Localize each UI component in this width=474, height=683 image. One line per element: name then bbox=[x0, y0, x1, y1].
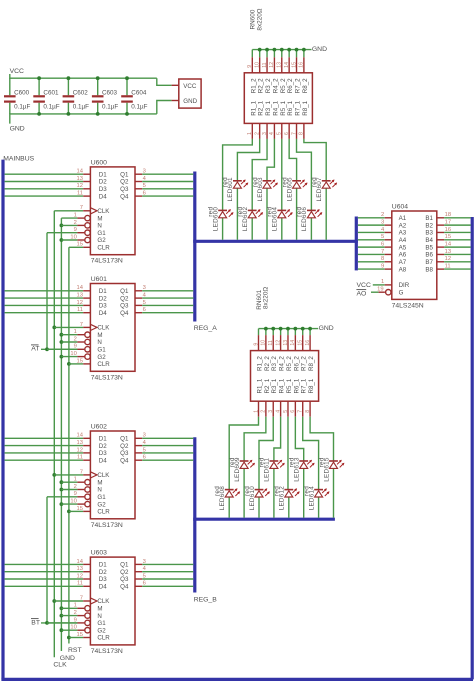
pin label U602 Q3 bbox=[120, 450, 129, 457]
pin number U600 CLR bbox=[77, 242, 83, 248]
svg-text:VCC: VCC bbox=[10, 68, 24, 75]
svg-text:4: 4 bbox=[269, 132, 275, 135]
pin U604 B6 bbox=[437, 253, 444, 255]
capacitor C603 bbox=[92, 78, 104, 114]
svg-text:7: 7 bbox=[80, 322, 83, 328]
inversion bubble U601 G2 bbox=[85, 354, 90, 359]
svg-text:R5_1: R5_1 bbox=[280, 100, 287, 115]
svg-text:LED608: LED608 bbox=[219, 486, 226, 511]
pin U604 A3 bbox=[385, 231, 392, 233]
pin label U603 D3 bbox=[99, 576, 107, 583]
svg-text:REG_A: REG_A bbox=[194, 325, 218, 332]
svg-text:R3_1: R3_1 bbox=[265, 100, 272, 115]
svg-text:R4_1: R4_1 bbox=[272, 100, 279, 115]
svg-text:RN600: RN600 bbox=[249, 9, 256, 29]
pin U600 D2 bbox=[83, 181, 90, 183]
svg-text:GND: GND bbox=[60, 655, 75, 662]
svg-text:5: 5 bbox=[283, 410, 289, 413]
pin label U603 Q4 bbox=[120, 584, 129, 591]
svg-text:5: 5 bbox=[143, 183, 146, 189]
pin number U604 B5 bbox=[445, 242, 452, 248]
svg-text:9: 9 bbox=[74, 227, 77, 233]
svg-text:10: 10 bbox=[70, 351, 76, 357]
pin U601 D2 bbox=[83, 297, 90, 299]
junction C603 VCC bbox=[96, 76, 100, 80]
label RN600 R1_1 bbox=[250, 100, 257, 115]
pin label U602 CLK bbox=[97, 472, 110, 479]
LED LED611 lead to bus bbox=[273, 468, 275, 517]
net GND label RN600 bbox=[312, 46, 327, 53]
label LED607 name bbox=[316, 177, 323, 202]
junction RN601 GND rail bbox=[301, 327, 305, 331]
junction RN601 GND rail bbox=[308, 327, 312, 331]
junction RN601 GND rail bbox=[264, 327, 268, 331]
svg-text:13: 13 bbox=[77, 176, 83, 182]
svg-text:8: 8 bbox=[305, 410, 311, 413]
svg-text:6: 6 bbox=[143, 307, 146, 313]
wire U603 N bbox=[61, 615, 77, 617]
wire U602 D1 from MAINBUS bbox=[5, 437, 84, 439]
pin number U604 B7 bbox=[445, 256, 451, 262]
pin number U600 Q1 bbox=[143, 169, 146, 175]
svg-text:11: 11 bbox=[268, 340, 274, 345]
pin number U600 Q3 bbox=[143, 183, 146, 189]
label U601 name bbox=[91, 276, 107, 283]
wire U603 D4 from MAINBUS bbox=[5, 585, 84, 587]
wire U604 B5 to MAINBUS bbox=[444, 246, 471, 248]
svg-text:LED615: LED615 bbox=[323, 457, 330, 482]
svg-text:5: 5 bbox=[381, 234, 384, 240]
pin label U600 Q4 bbox=[120, 193, 129, 200]
svg-text:D1: D1 bbox=[99, 436, 107, 443]
pin RN601 6 bbox=[294, 401, 296, 417]
pin U604 G bbox=[379, 291, 385, 293]
pin number U601 Q1 bbox=[143, 285, 146, 291]
pin label U603 D1 bbox=[99, 562, 107, 569]
wire U604 B2 to MAINBUS bbox=[444, 224, 471, 226]
bus MAINBUS left vertical bbox=[1, 160, 4, 680]
junction RN601 GND rail bbox=[279, 327, 283, 331]
IC U600 74LS173N box bbox=[90, 167, 135, 255]
pin number U600 Q2 bbox=[143, 176, 147, 182]
wire U602 N bbox=[61, 489, 77, 491]
svg-text:Q1: Q1 bbox=[120, 288, 129, 295]
pin label U602 N bbox=[97, 487, 101, 494]
wire RN600 pin16 to GND bbox=[303, 50, 305, 58]
svg-text:Q2: Q2 bbox=[120, 295, 129, 302]
wire U603 D1 from MAINBUS bbox=[5, 563, 84, 565]
inversion bubble U600 N bbox=[85, 223, 90, 228]
pin U602 M bbox=[77, 481, 84, 483]
wire RN601 pin4 to LED611 bbox=[274, 417, 281, 461]
junction GND net bbox=[60, 488, 64, 492]
pin number U603 Q4 bbox=[143, 581, 146, 587]
svg-text:R8_1: R8_1 bbox=[308, 378, 315, 393]
inversion bubble U600 M bbox=[85, 215, 90, 220]
LED LED614 diode symbol bbox=[314, 488, 329, 497]
wire U603 Q3 to REG bus bbox=[142, 578, 193, 580]
pin number U601 Q2 bbox=[143, 293, 147, 299]
wire U601 M bbox=[61, 334, 77, 336]
pin number U602 D1 bbox=[77, 433, 84, 439]
junction RN600 GND rail bbox=[280, 48, 284, 52]
svg-text:Q4: Q4 bbox=[120, 193, 129, 200]
svg-text:9: 9 bbox=[253, 343, 259, 346]
svg-text:R5_1: R5_1 bbox=[286, 378, 293, 393]
wire U601 D1 from MAINBUS bbox=[5, 290, 84, 292]
svg-text:CLK: CLK bbox=[97, 472, 110, 479]
pin number RN601 4 bbox=[275, 410, 281, 413]
pin number RN601 12 bbox=[275, 340, 281, 346]
svg-text:16: 16 bbox=[445, 227, 451, 233]
pin U604 A6 bbox=[385, 253, 392, 255]
wire RN601 pin13 to GND bbox=[287, 329, 289, 336]
label RN601 R3_1 bbox=[271, 378, 278, 393]
label LED600 name bbox=[212, 207, 219, 232]
svg-text:D1: D1 bbox=[99, 288, 107, 295]
svg-text:G1: G1 bbox=[97, 494, 106, 501]
pin U604 B8 bbox=[437, 268, 444, 270]
wire RN601 pin16 to GND bbox=[309, 329, 311, 336]
pin label U603 Q3 bbox=[120, 576, 129, 583]
pin number U603 CLR bbox=[77, 632, 83, 638]
wire U601 Q1 to REG bus bbox=[142, 290, 193, 292]
svg-text:GND: GND bbox=[319, 325, 334, 332]
inversion bubble U602 G2 bbox=[85, 501, 90, 506]
wire U601 G2 bbox=[61, 356, 77, 358]
svg-text:CLK: CLK bbox=[97, 208, 110, 215]
wire U601 Q3 to REG bus bbox=[142, 304, 193, 306]
svg-text:5: 5 bbox=[143, 300, 146, 306]
wire RN601 pin5 to LED612 bbox=[287, 417, 289, 490]
pin U604 B1 bbox=[437, 217, 444, 219]
pin label U603 G1 bbox=[97, 620, 106, 627]
label LED614 name bbox=[308, 486, 315, 511]
wire U600 Q3 to REG bus bbox=[142, 188, 193, 190]
inversion bubble U600 G2 bbox=[85, 237, 90, 242]
LED LED612 diode symbol bbox=[284, 488, 299, 497]
wire U600 G2 bbox=[61, 239, 77, 241]
label RN600 R1_2 bbox=[250, 78, 257, 93]
wire RN601 pin15 to GND bbox=[302, 329, 304, 336]
capacitor C602 bbox=[63, 78, 75, 114]
LED LED608 lead to bus bbox=[228, 497, 230, 518]
net VCC label bbox=[10, 68, 24, 75]
pin number U604 B8 bbox=[445, 264, 451, 270]
svg-text:Q2: Q2 bbox=[120, 179, 129, 186]
LED LED611 diode symbol bbox=[270, 460, 285, 469]
svg-text:M: M bbox=[97, 215, 102, 222]
LED LED601 lead to bus bbox=[236, 188, 238, 240]
pin supply GND bbox=[172, 100, 179, 102]
pin U601 G2 bbox=[77, 356, 84, 358]
pin label U600 D1 bbox=[99, 171, 107, 178]
svg-text:9: 9 bbox=[74, 344, 77, 350]
LED LED610 diode symbol bbox=[255, 488, 270, 497]
svg-text:11: 11 bbox=[77, 455, 83, 461]
resistor network RN600 box bbox=[244, 73, 312, 124]
svg-text:R3_2: R3_2 bbox=[271, 356, 278, 371]
junction GND net bbox=[60, 333, 64, 337]
wire U602 D2 from MAINBUS bbox=[5, 445, 84, 447]
pin label U604 A8 bbox=[399, 266, 407, 273]
pin number U600 D1 bbox=[77, 169, 84, 175]
svg-text:10: 10 bbox=[70, 234, 76, 240]
svg-text:R7_1: R7_1 bbox=[295, 100, 302, 115]
wire U601 D4 from MAINBUS bbox=[5, 312, 84, 314]
svg-text:3: 3 bbox=[143, 559, 146, 565]
pin RN600 12 bbox=[273, 57, 275, 73]
pin RN600 5 bbox=[281, 123, 283, 138]
pin label U601 Q1 bbox=[120, 288, 129, 295]
junction GND net bbox=[60, 502, 64, 506]
pin label U601 Q3 bbox=[120, 303, 129, 310]
wire net BT horizontal bbox=[41, 622, 77, 624]
pin number U604 A7 bbox=[381, 256, 384, 262]
wire RN601 pin8 to LED615 bbox=[310, 417, 333, 461]
wire U604 A2 from bus bbox=[358, 224, 385, 226]
pin number RN601 7 bbox=[298, 410, 304, 413]
pin number U604 A1 bbox=[381, 212, 384, 218]
pin number U602 Q2 bbox=[143, 440, 147, 446]
svg-text:C601: C601 bbox=[43, 89, 59, 96]
wire U603 Q2 to REG bus bbox=[142, 571, 193, 573]
svg-text:Q3: Q3 bbox=[120, 186, 129, 193]
label RN601 R3_2 bbox=[271, 356, 278, 371]
wire U603 Q4 to REG bus bbox=[142, 585, 193, 587]
pin U600 Q2 bbox=[135, 181, 142, 183]
pin number U603 G2 bbox=[70, 625, 76, 631]
pin U604 A4 bbox=[385, 239, 392, 241]
svg-text:CLK: CLK bbox=[97, 325, 110, 332]
pin U603 G1 bbox=[77, 622, 84, 624]
junction C604 VCC bbox=[125, 76, 129, 80]
LED LED606 lead to bus bbox=[310, 218, 312, 240]
wire U602 D4 from MAINBUS bbox=[5, 459, 84, 461]
svg-text:6: 6 bbox=[143, 581, 146, 587]
svg-text:14: 14 bbox=[77, 433, 84, 439]
svg-text:CLR: CLR bbox=[97, 245, 110, 252]
svg-text:16: 16 bbox=[305, 340, 311, 346]
svg-text:LED612: LED612 bbox=[279, 486, 286, 511]
svg-text:13: 13 bbox=[283, 340, 289, 346]
wire net CLK vertical bbox=[53, 211, 55, 658]
svg-text:B5: B5 bbox=[425, 244, 433, 251]
pin U603 D4 bbox=[83, 585, 90, 587]
pin number U603 D3 bbox=[77, 573, 83, 579]
wire U602 G1 bbox=[47, 496, 77, 498]
label LED603 name bbox=[257, 177, 264, 202]
junction RST net bbox=[67, 636, 71, 640]
label RN600 R3_2 bbox=[265, 78, 272, 93]
svg-text:10: 10 bbox=[70, 625, 76, 631]
svg-text:Q2: Q2 bbox=[120, 443, 129, 450]
pin number U603 Q3 bbox=[143, 573, 146, 579]
pin U602 N bbox=[77, 489, 84, 491]
inversion bubble U602 G1 bbox=[85, 494, 90, 499]
pin number U603 G1 bbox=[74, 617, 77, 623]
wire net AT horizontal bbox=[41, 348, 77, 350]
LED LED610 lead to bus bbox=[258, 497, 260, 518]
resistor network RN601 box bbox=[251, 351, 319, 402]
pin number RN600 14 bbox=[284, 62, 290, 68]
pin number RN600 9 bbox=[247, 65, 253, 68]
pin number U603 N bbox=[74, 610, 77, 616]
pin label U603 M bbox=[97, 606, 102, 613]
svg-text:15: 15 bbox=[291, 62, 297, 68]
wire GND rail bbox=[10, 114, 157, 124]
svg-text:LED613: LED613 bbox=[294, 457, 301, 482]
svg-text:6: 6 bbox=[143, 455, 146, 461]
junction RST net bbox=[67, 362, 71, 366]
svg-text:MAINBUS: MAINBUS bbox=[3, 155, 34, 162]
svg-text:3: 3 bbox=[143, 285, 146, 291]
pin label U600 D2 bbox=[99, 179, 107, 186]
label RN600 value bbox=[257, 8, 264, 30]
pin number RN600 4 bbox=[269, 132, 275, 135]
label RN601 R2_2 bbox=[264, 356, 271, 371]
pin label U600 M bbox=[97, 215, 102, 222]
net GND label RN601 bbox=[319, 325, 334, 332]
svg-text:1: 1 bbox=[381, 279, 384, 285]
wire U602 Q1 to REG bus bbox=[142, 437, 193, 439]
pin label U603 Q1 bbox=[120, 562, 129, 569]
capacitor C601 bbox=[33, 78, 45, 114]
wire RN600 pin6 to LED605 bbox=[289, 139, 296, 181]
pin RN600 1 bbox=[251, 123, 253, 138]
clock symbol U600 bbox=[90, 208, 97, 214]
label U603 name bbox=[91, 550, 107, 557]
LED LED603 diode symbol bbox=[263, 180, 278, 189]
svg-text:D1: D1 bbox=[99, 171, 107, 178]
label RN600 R4_1 bbox=[272, 100, 279, 115]
pin number U601 Q3 bbox=[143, 300, 146, 306]
svg-text:D3: D3 bbox=[99, 450, 107, 457]
svg-text:3: 3 bbox=[381, 220, 384, 226]
junction CLK net bbox=[52, 473, 56, 477]
pin label U604 B8 bbox=[425, 266, 433, 273]
pin RN601 11 bbox=[272, 335, 274, 351]
pin U602 CLK bbox=[83, 474, 90, 476]
inversion bubble U603 N bbox=[85, 613, 90, 618]
wire RN600 pin5 to LED604 bbox=[281, 139, 283, 211]
pin number U600 M bbox=[74, 213, 77, 219]
pin RN600 7 bbox=[296, 123, 298, 138]
label LED606 name bbox=[301, 207, 308, 232]
svg-text:R4_2: R4_2 bbox=[279, 356, 286, 371]
svg-text:B1: B1 bbox=[425, 215, 433, 222]
wire U604 G bbox=[371, 291, 379, 293]
svg-text:5: 5 bbox=[143, 573, 146, 579]
svg-text:1: 1 bbox=[247, 132, 253, 135]
wire net BT vertical bbox=[46, 497, 48, 623]
svg-text:D3: D3 bbox=[99, 186, 107, 193]
wire U602 Q3 to REG bus bbox=[142, 452, 193, 454]
svg-text:R6_2: R6_2 bbox=[287, 78, 294, 93]
svg-text:1: 1 bbox=[74, 603, 77, 609]
svg-text:7: 7 bbox=[291, 132, 297, 135]
svg-text:14: 14 bbox=[77, 285, 84, 291]
junction GND net bbox=[60, 614, 64, 618]
wire U602 M bbox=[61, 481, 77, 483]
pin label U604 B4 bbox=[425, 237, 433, 244]
pin U603 Q2 bbox=[135, 571, 142, 573]
junction C602 GND bbox=[67, 112, 71, 116]
svg-text:0.1µF: 0.1µF bbox=[14, 103, 30, 110]
svg-text:D3: D3 bbox=[99, 303, 107, 310]
svg-text:12: 12 bbox=[445, 256, 451, 262]
svg-text:B6: B6 bbox=[425, 252, 433, 259]
pin U602 Q3 bbox=[135, 452, 142, 454]
svg-text:2: 2 bbox=[74, 220, 77, 226]
pin label U601 G1 bbox=[97, 347, 106, 354]
junction GND net bbox=[60, 628, 64, 632]
inversion bubble U600 G1 bbox=[85, 230, 90, 235]
wire U601 N bbox=[61, 341, 77, 343]
pin U600 CLK bbox=[83, 210, 90, 212]
label REG_A bbox=[194, 325, 218, 332]
wire U604 A1 from bus bbox=[358, 217, 385, 219]
pin number U602 CLR bbox=[77, 506, 83, 512]
wire RN600 pin14 to GND bbox=[288, 50, 290, 58]
svg-text:74LS173N: 74LS173N bbox=[91, 258, 123, 265]
pin number U604 A2 bbox=[381, 220, 384, 226]
label LED614 red bbox=[303, 486, 310, 496]
svg-text:11: 11 bbox=[262, 62, 268, 67]
clock symbol U602 bbox=[90, 472, 97, 478]
wire U603 D3 from MAINBUS bbox=[5, 578, 84, 580]
pin label U603 D2 bbox=[99, 569, 107, 576]
svg-text:14: 14 bbox=[77, 559, 84, 565]
pin number RN600 2 bbox=[254, 132, 260, 135]
pin number U601 M bbox=[74, 329, 77, 335]
label RN601 R1_1 bbox=[257, 378, 264, 393]
pin label U602 Q1 bbox=[120, 436, 129, 443]
pin label U601 D4 bbox=[99, 310, 107, 317]
pin U603 Q1 bbox=[135, 563, 142, 565]
svg-text:R7_1: R7_1 bbox=[301, 378, 308, 393]
pin U600 N bbox=[77, 224, 84, 226]
pin label U602 D2 bbox=[99, 443, 107, 450]
pin number RN600 10 bbox=[254, 62, 260, 68]
wire U601 Q4 to REG bus bbox=[142, 312, 193, 314]
pin number U604 A5 bbox=[381, 242, 384, 248]
junction RN600 GND rail bbox=[287, 48, 291, 52]
pin U602 Q2 bbox=[135, 445, 142, 447]
junction C601 GND bbox=[37, 112, 41, 116]
svg-text:D2: D2 bbox=[99, 179, 107, 186]
bus REG_B horizontal bbox=[193, 518, 335, 521]
label RN601 R2_1 bbox=[264, 378, 271, 393]
wire U600 G1 bbox=[47, 232, 77, 234]
svg-text:15: 15 bbox=[445, 234, 451, 240]
label U604 AO bbox=[356, 290, 366, 298]
svg-text:1: 1 bbox=[74, 329, 77, 335]
svg-text:0.1µF: 0.1µF bbox=[43, 103, 59, 110]
junction RN601 GND rail bbox=[271, 327, 275, 331]
svg-text:B2: B2 bbox=[425, 222, 433, 229]
svg-text:8: 8 bbox=[299, 132, 305, 135]
LED LED601 diode symbol bbox=[233, 180, 248, 189]
label RST bottom bbox=[68, 647, 82, 654]
pin U603 CLR bbox=[83, 637, 90, 639]
pin number U602 CLK bbox=[80, 469, 83, 475]
wire RN600 pin12 to GND bbox=[273, 50, 275, 58]
pin number U602 M bbox=[74, 477, 77, 483]
label LED609 red bbox=[229, 457, 236, 467]
label U602 value bbox=[91, 522, 123, 529]
label RN600 name bbox=[249, 9, 256, 29]
